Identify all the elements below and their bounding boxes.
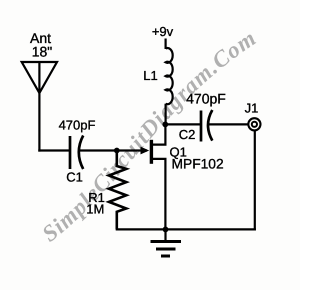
svg-text:C2: C2 [179, 127, 196, 142]
wire ground rail [116, 228, 256, 230]
node drain junction [162, 122, 168, 128]
connector J1 inner ring [252, 122, 257, 127]
svg-text:J1: J1 [245, 100, 259, 115]
wire C1 to gate node [80, 149, 117, 151]
wire L1 to drain node [165, 104, 167, 125]
wire gate [117, 149, 147, 151]
capacitor C2 plates [200, 111, 203, 142]
ground symbol bars [151, 242, 182, 257]
node source-ground junction [163, 227, 169, 233]
wire +9v to L1 [165, 39, 167, 50]
capacitor C1 plates [69, 136, 72, 169]
svg-text:SimpleCircuitDiagram.Com: SimpleCircuitDiagram.Com [37, 25, 261, 247]
transistor Q1 gate arrow [141, 147, 150, 155]
wire antenna to C1 [38, 149, 69, 151]
wire antenna lead down [38, 91, 40, 152]
svg-text:18": 18" [32, 44, 53, 60]
transistor Q1 source lead [151, 159, 165, 230]
svg-text:470pF: 470pF [186, 90, 226, 106]
connector J1 outer ring [248, 118, 260, 130]
inductor L1 [166, 48, 173, 104]
ground stem [164, 229, 166, 241]
transistor Q1 drain lead [151, 124, 165, 144]
svg-text:MPF102: MPF102 [172, 157, 224, 172]
svg-text:1M: 1M [86, 202, 104, 217]
transistor Q1 channel bar [150, 140, 153, 164]
resistor R1 [109, 151, 126, 230]
antenna symbol [22, 62, 57, 93]
svg-text:+9v: +9v [152, 24, 174, 39]
svg-text:470pF: 470pF [59, 117, 96, 132]
svg-text:L1: L1 [143, 68, 157, 83]
node gate junction [114, 148, 120, 154]
svg-text:C1: C1 [66, 170, 83, 185]
wire C2 to J1 [209, 123, 248, 125]
wire drain node to C2 [165, 123, 200, 125]
wire J1 down [254, 130, 256, 230]
